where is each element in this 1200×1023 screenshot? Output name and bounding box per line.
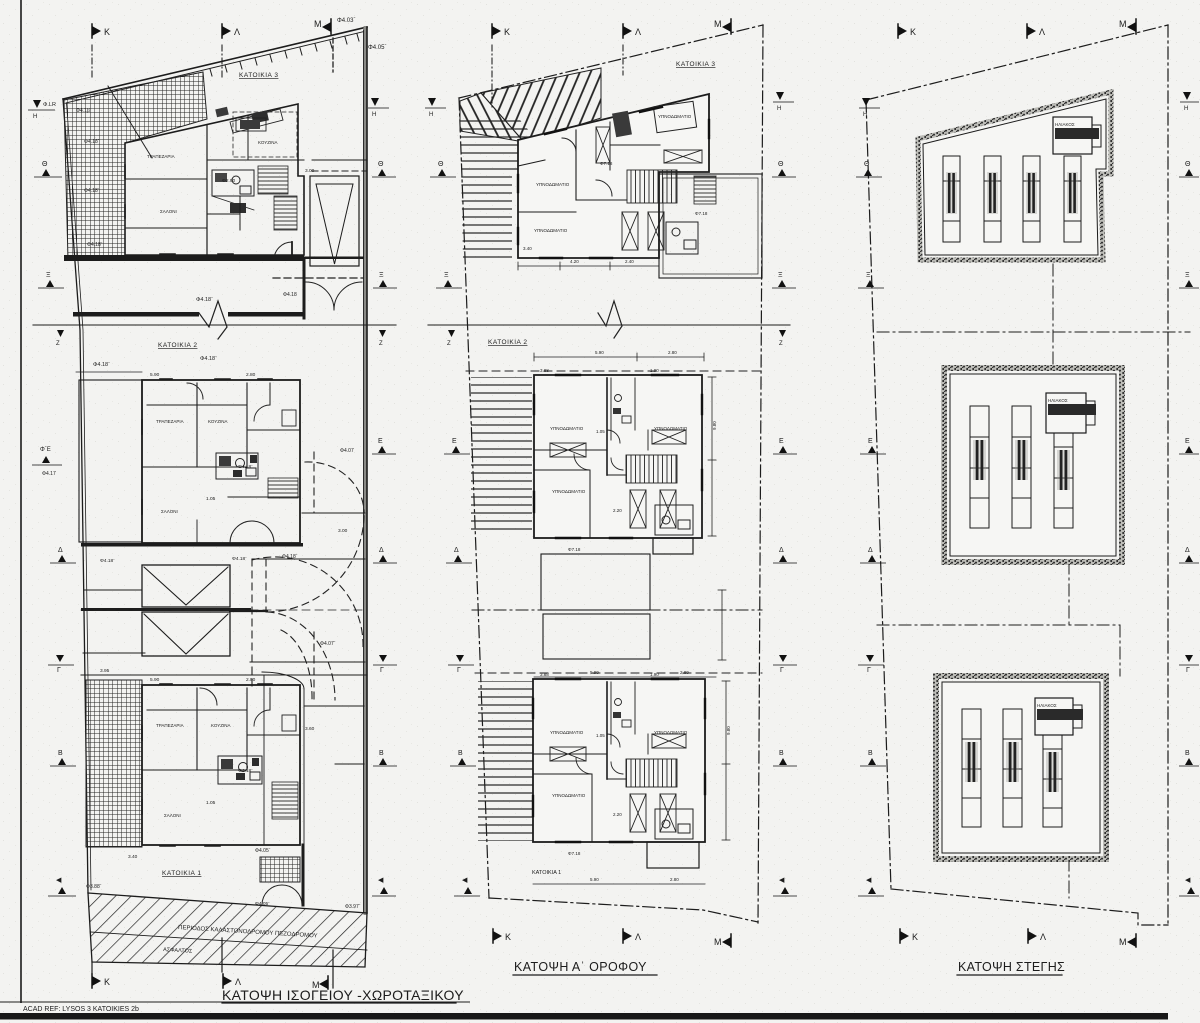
svg-text:Θ: Θ bbox=[438, 161, 444, 168]
window tick marks on left-panel houses bbox=[125, 165, 272, 846]
bottom black bar bbox=[0, 1013, 1168, 1020]
site boundary left edge bbox=[63, 99, 88, 893]
svg-text:Ξ: Ξ bbox=[778, 272, 783, 279]
svg-text:Φ3.97ˉ: Φ3.97ˉ bbox=[345, 904, 361, 910]
svg-text:ΚΑΤΟΨΗ ΣΤΕΓΗΣ: ΚΑΤΟΨΗ ΣΤΕΓΗΣ bbox=[958, 960, 1065, 974]
svg-text:ΚΑΤΟΨΗ ΙΣΟΓΕΙΟΥ -ΧΩΡΟΤΑΞΙΚΟΥ: ΚΑΤΟΨΗ ΙΣΟΓΕΙΟΥ -ΧΩΡΟΤΑΞΙΚΟΥ bbox=[222, 987, 464, 1003]
svg-text:Φ7.18: Φ7.18 bbox=[600, 161, 613, 166]
svg-text:Θ: Θ bbox=[378, 161, 384, 168]
svg-text:Λ: Λ bbox=[635, 27, 641, 37]
pergola hstripe band left house3 bbox=[460, 120, 545, 258]
svg-text:B: B bbox=[379, 750, 384, 757]
svg-text:3.40: 3.40 bbox=[523, 246, 532, 251]
svg-text:5.90: 5.90 bbox=[150, 677, 160, 683]
stairs house2 mid bbox=[626, 455, 677, 483]
svg-text:ΗΛΙΑΚΟΣ: ΗΛΙΑΚΟΣ bbox=[1037, 703, 1057, 708]
house2 stairs bbox=[268, 478, 298, 498]
scattered dims mid panel bbox=[540, 368, 659, 856]
svg-text:M: M bbox=[1119, 937, 1127, 947]
road strip hatched bbox=[88, 893, 367, 967]
svg-text:E: E bbox=[1185, 438, 1190, 445]
house2 terrace rect bbox=[79, 380, 142, 542]
svg-text:E: E bbox=[378, 438, 383, 445]
entry court hatch square bbox=[260, 857, 300, 882]
roof 3 (bottom) bbox=[936, 676, 1106, 859]
svg-text:K: K bbox=[912, 932, 918, 942]
solar panels roof1 bbox=[943, 156, 1081, 242]
pergola hstripe house2 mid bbox=[471, 377, 532, 533]
svg-text:ΥΠΝΟΔΩΜΑΤΙΟ: ΥΠΝΟΔΩΜΑΤΙΟ bbox=[552, 489, 586, 494]
house1 top entry arc bbox=[200, 688, 217, 705]
svg-text:ΤΡΑΠΕΖΑΡΙΑ: ΤΡΑΠΕΖΑΡΙΑ bbox=[156, 419, 184, 424]
svg-text:H: H bbox=[1184, 106, 1188, 112]
property boundary dash-dot right panel bbox=[866, 25, 1168, 925]
section flag L top bbox=[222, 24, 240, 38]
svg-text:ΤΡΑΠΕΖΑΡΙΑ: ΤΡΑΠΕΖΑΡΙΑ bbox=[156, 723, 184, 728]
dimension below house1 mid bbox=[533, 883, 705, 885]
svg-text:Φ4.18ˉ: Φ4.18ˉ bbox=[84, 188, 100, 194]
svg-text:ΚΑΤΟΙΚΙΑ 3: ΚΑΤΟΙΚΙΑ 3 bbox=[239, 72, 278, 79]
svg-text:Δ: Δ bbox=[379, 547, 384, 554]
svg-text:3.40: 3.40 bbox=[128, 854, 138, 860]
svg-text:Φ4.07ˉ: Φ4.07ˉ bbox=[320, 641, 336, 647]
svg-text:M: M bbox=[1119, 19, 1127, 29]
bath house3 mid bbox=[666, 222, 698, 254]
grid dash-dot horizontal between houses bbox=[472, 609, 762, 611]
svg-text:H: H bbox=[372, 112, 376, 118]
svg-text:M: M bbox=[714, 937, 722, 947]
X window boxes house3 mid bbox=[596, 127, 702, 250]
veranda cross-hatch house3 bbox=[64, 72, 207, 260]
svg-text:Ξ: Ξ bbox=[444, 272, 449, 279]
svg-text:Φ4.05ˉ: Φ4.05ˉ bbox=[255, 848, 271, 854]
svg-text:ΥΠΝΟΔΩΜΑΤΙΟ: ΥΠΝΟΔΩΜΑΤΙΟ bbox=[534, 228, 568, 233]
terraces between house2 and house1 mid bbox=[541, 554, 650, 610]
courtyard ticks row between house3 and wall band bbox=[273, 277, 363, 279]
A marks bbox=[48, 877, 76, 896]
svg-text:5.90: 5.90 bbox=[150, 372, 160, 378]
svg-text:2.20: 2.20 bbox=[613, 508, 622, 513]
svg-text:3.88: 3.88 bbox=[540, 672, 549, 677]
window dark ticks house2 mid bbox=[534, 375, 702, 538]
Delta marks bbox=[50, 547, 76, 563]
interior house2 mid bbox=[534, 449, 607, 451]
svg-text:1.90: 1.90 bbox=[650, 672, 659, 677]
svg-text:Φ4.18ˉ: Φ4.18ˉ bbox=[100, 558, 115, 564]
svg-text:Θ: Θ bbox=[864, 161, 870, 168]
svg-text:Φ4.05ˉ: Φ4.05ˉ bbox=[368, 45, 386, 51]
house1 mid outline bbox=[533, 679, 705, 842]
svg-text:B: B bbox=[58, 750, 63, 757]
section flag K top bbox=[492, 24, 510, 38]
house2 entry door arcs bottom bbox=[230, 521, 252, 543]
svg-text:Θ: Θ bbox=[42, 161, 48, 168]
svg-text:4.20: 4.20 bbox=[570, 259, 579, 264]
svg-text:Λ: Λ bbox=[1039, 27, 1045, 37]
svg-text:H: H bbox=[33, 114, 37, 120]
site boundary right edge (double) bbox=[364, 28, 368, 913]
svg-text:ΥΠΝΟΔΩΜΑΤΙΟ: ΥΠΝΟΔΩΜΑΤΙΟ bbox=[658, 114, 692, 119]
svg-text:◀: ◀ bbox=[779, 877, 785, 884]
house1 outline bbox=[142, 685, 300, 845]
garage house1: two stalls with V bbox=[142, 565, 230, 607]
long section line Z-Z bbox=[33, 324, 396, 326]
svg-text:ΣΑΛΟΝΙ: ΣΑΛΟΝΙ bbox=[161, 509, 178, 514]
svg-text:2.80: 2.80 bbox=[670, 877, 679, 882]
section flag M top bbox=[714, 19, 731, 34]
svg-text:H: H bbox=[777, 106, 781, 112]
svg-text:ΗΛΙΑΚΟΣ: ΗΛΙΑΚΟΣ bbox=[1055, 122, 1075, 127]
svg-text:◀: ◀ bbox=[462, 877, 468, 884]
garage door swing arcs court bbox=[306, 282, 334, 310]
svg-text:2.80: 2.80 bbox=[680, 670, 689, 675]
svg-text:Γ: Γ bbox=[780, 667, 784, 674]
garage house3 right rectangle with ramp triangle bbox=[310, 176, 359, 266]
svg-text:◀: ◀ bbox=[56, 877, 62, 884]
svg-text:3.95: 3.95 bbox=[100, 668, 110, 674]
house1 stairs bbox=[272, 782, 298, 819]
svg-text:5.90: 5.90 bbox=[590, 670, 599, 675]
svg-text:Φ2.90: Φ2.90 bbox=[222, 178, 235, 184]
house3 stairs bbox=[258, 166, 288, 194]
window dark ticks house1 mid bbox=[533, 679, 705, 842]
svg-text:Φ4.07: Φ4.07 bbox=[340, 448, 354, 454]
Theta marks bbox=[34, 161, 62, 177]
svg-text:ΚΟΥΖΙΝΑ: ΚΟΥΖΙΝΑ bbox=[211, 723, 230, 728]
interior house1 mid bbox=[533, 753, 607, 755]
svg-text:B: B bbox=[868, 750, 873, 757]
svg-text:ΚΑΤΟΙΚΙΑ 3: ΚΑΤΟΙΚΙΑ 3 bbox=[676, 61, 715, 68]
title block top line bbox=[0, 1001, 470, 1003]
svg-text:M: M bbox=[314, 19, 322, 29]
internal dash-dot connectors bbox=[877, 264, 1190, 898]
svg-text:Γ: Γ bbox=[867, 667, 871, 674]
house2 top door arc bbox=[187, 383, 203, 399]
svg-text:2.80: 2.80 bbox=[246, 677, 256, 683]
svg-text:Φ4.18: Φ4.18 bbox=[283, 292, 297, 298]
driveway dashed arcs right of house2 bbox=[252, 452, 364, 700]
svg-text:1.05: 1.05 bbox=[206, 496, 216, 502]
section flag M top bbox=[314, 19, 331, 34]
roof stripe band house3 bbox=[481, 68, 601, 142]
Gamma marks bbox=[48, 655, 74, 674]
house2 interior walls bbox=[147, 404, 247, 406]
bath house2 mid bbox=[655, 505, 693, 535]
svg-text:Γ: Γ bbox=[380, 667, 384, 674]
svg-text:Δ: Δ bbox=[868, 547, 873, 554]
bed house3 mid bbox=[653, 101, 696, 132]
svg-text:◀: ◀ bbox=[1185, 877, 1191, 884]
roof 2 (middle) bbox=[944, 368, 1122, 562]
svg-text:ΥΠΝΟΔΩΜΑΤΙΟ: ΥΠΝΟΔΩΜΑΤΙΟ bbox=[550, 426, 584, 431]
fence ticks along top boundary wall bbox=[210, 34, 359, 76]
svg-text:Λ: Λ bbox=[234, 27, 240, 37]
svg-text:3.60: 3.60 bbox=[305, 726, 315, 732]
svg-text:Δ: Δ bbox=[1185, 547, 1190, 554]
svg-text:Ξ: Ξ bbox=[1185, 272, 1190, 279]
dash lines under flags bbox=[91, 45, 93, 80]
grid marks middle panel bbox=[425, 92, 797, 896]
svg-text:Θ: Θ bbox=[778, 161, 784, 168]
svg-text:E: E bbox=[452, 438, 457, 445]
svg-text:Λ: Λ bbox=[635, 932, 641, 942]
svg-text:ΚΑΤΟΙΚΙΑ 2: ΚΑΤΟΙΚΙΑ 2 bbox=[488, 339, 527, 346]
house3 interior walls bbox=[206, 125, 208, 255]
svg-text:Φ4.18ˉ: Φ4.18ˉ bbox=[200, 356, 217, 362]
roof 1 (top) bbox=[918, 92, 1111, 260]
svg-text:K: K bbox=[104, 977, 110, 987]
grid marks right panel bbox=[856, 92, 1199, 896]
svg-text:Φ.LR: Φ.LR bbox=[43, 102, 56, 108]
svg-text:Φ4.18ˉ: Φ4.18ˉ bbox=[238, 464, 253, 470]
house2 mid outline bbox=[534, 375, 702, 538]
svg-text:H: H bbox=[429, 112, 433, 118]
svg-text:3.00: 3.00 bbox=[305, 168, 315, 174]
svg-text:1.90: 1.90 bbox=[650, 368, 659, 373]
house 3 outline bbox=[125, 104, 304, 255]
line between garage court and house1 bbox=[81, 674, 367, 676]
house1 bath cluster bbox=[218, 756, 262, 784]
section flag K top bbox=[92, 24, 110, 38]
svg-text:Θ: Θ bbox=[1185, 161, 1191, 168]
svg-text:ΗΛΙΑΚΟΣ: ΗΛΙΑΚΟΣ bbox=[1048, 398, 1068, 403]
pergola hstripe house1 mid bbox=[478, 681, 539, 841]
svg-text:ΥΠΝΟΔΩΜΑΤΙΟ: ΥΠΝΟΔΩΜΑΤΙΟ bbox=[536, 182, 570, 187]
svg-text:K: K bbox=[910, 27, 916, 37]
dimension lines above house2 mid bbox=[534, 356, 704, 358]
WC fixtures top-center house1 mid bbox=[615, 699, 622, 706]
entry court door arcs bbox=[262, 885, 282, 905]
house3 mid outline bbox=[518, 94, 709, 258]
svg-text:H: H bbox=[863, 112, 867, 118]
house3 mid garage/terrace rect bbox=[659, 174, 762, 278]
house2 right side partitions bbox=[269, 383, 271, 405]
svg-text:9.80: 9.80 bbox=[712, 421, 717, 430]
section flag K top bbox=[898, 24, 916, 38]
svg-text:Γ: Γ bbox=[1186, 667, 1190, 674]
bottom flags bbox=[92, 974, 110, 988]
bottom flags right bbox=[900, 929, 918, 943]
svg-text:Ξ: Ξ bbox=[46, 272, 51, 279]
svg-text:Φ4.1βˉ: Φ4.1βˉ bbox=[76, 108, 92, 114]
svg-text:ΥΠΝΟΔΩΜΑΤΙΟ: ΥΠΝΟΔΩΜΑΤΙΟ bbox=[550, 730, 584, 735]
svg-text:5.90: 5.90 bbox=[595, 350, 604, 355]
dimension line right of house2 mid bbox=[708, 377, 726, 660]
svg-text:Φ7.18: Φ7.18 bbox=[695, 211, 708, 216]
house2 mid lower block bbox=[653, 538, 693, 554]
house2 corridor lines bbox=[228, 496, 300, 498]
svg-text:Γ: Γ bbox=[457, 667, 461, 674]
svg-text:Φ4.18ˉ: Φ4.18ˉ bbox=[93, 362, 110, 368]
house3 top right small rooms detail bbox=[236, 118, 266, 131]
Xi marks bbox=[38, 272, 64, 288]
svg-text:5.90: 5.90 bbox=[590, 877, 599, 882]
svg-text:ΚΟΥΖΙΝΑ: ΚΟΥΖΙΝΑ bbox=[258, 140, 277, 145]
svg-text:K: K bbox=[104, 27, 110, 37]
svg-text:E: E bbox=[868, 438, 873, 445]
svg-text:ΦˉE: ΦˉE bbox=[40, 447, 51, 453]
svg-text:2.20: 2.20 bbox=[613, 812, 622, 817]
svg-text:Δ: Δ bbox=[454, 547, 459, 554]
svg-text:Z: Z bbox=[447, 341, 451, 347]
house3 mid interior bbox=[575, 130, 577, 200]
svg-text:Φ4.18ˉ: Φ4.18ˉ bbox=[238, 768, 253, 774]
bottom flags mid bbox=[493, 929, 511, 943]
svg-text:Φ3.88ˉ: Φ3.88ˉ bbox=[86, 884, 102, 890]
svg-text:1.05: 1.05 bbox=[596, 733, 605, 738]
svg-text:Λ: Λ bbox=[1040, 932, 1046, 942]
stairs house1 mid bbox=[626, 759, 677, 787]
house1 right side partitions bbox=[269, 688, 271, 710]
house1 interior walls bbox=[147, 709, 247, 711]
dimension line right of house1 mid bbox=[722, 681, 730, 840]
dashed line above house2 mid bbox=[466, 370, 762, 372]
svg-text:Z: Z bbox=[56, 341, 60, 347]
vertical panel labels roof1 bbox=[946, 172, 957, 214]
retaining wall thick band with break bbox=[73, 312, 199, 317]
svg-text:Φ4.18ˉ: Φ4.18ˉ bbox=[232, 556, 247, 562]
svg-text:3.00: 3.00 bbox=[338, 528, 348, 534]
thick wall below house2 bbox=[81, 543, 303, 547]
H marks bbox=[28, 100, 56, 120]
solar heater block roof1 bbox=[1053, 117, 1092, 154]
svg-text:Φ4.18ˉ: Φ4.18ˉ bbox=[196, 297, 213, 303]
svg-text:1.05: 1.05 bbox=[206, 800, 216, 806]
svg-text:K: K bbox=[504, 27, 510, 37]
svg-text:B: B bbox=[779, 750, 784, 757]
B marks bbox=[50, 750, 76, 766]
left frame border line bbox=[20, 0, 22, 1003]
svg-text:Φ4.18ˉ: Φ4.18ˉ bbox=[87, 242, 103, 248]
house3 bath fixtures bbox=[212, 170, 254, 196]
entry court path bbox=[262, 672, 304, 689]
svg-text:ΚΑΤΟΙΚΙΑ 2: ΚΑΤΟΙΚΙΑ 2 bbox=[158, 342, 197, 349]
svg-text:Φ7.18: Φ7.18 bbox=[568, 851, 581, 856]
svg-text:ΥΠΝΟΔΩΜΑΤΙΟ: ΥΠΝΟΔΩΜΑΤΙΟ bbox=[654, 730, 688, 735]
house3 bottom thick wall band bbox=[64, 255, 304, 261]
svg-text:ΣΑΛΟΝΙ: ΣΑΛΟΝΙ bbox=[164, 813, 181, 818]
door arcs house3 mid bbox=[562, 138, 576, 152]
svg-text:ΥΠΝΟΔΩΜΑΤΙΟ: ΥΠΝΟΔΩΜΑΤΙΟ bbox=[552, 793, 586, 798]
svg-text:ΚΑΤΟΙΚΙΑ 1: ΚΑΤΟΙΚΙΑ 1 bbox=[162, 870, 201, 877]
svg-text:2.80: 2.80 bbox=[668, 350, 677, 355]
svg-text:Γ: Γ bbox=[57, 667, 61, 674]
stairs house3 mid bbox=[627, 170, 677, 203]
svg-text:2.40: 2.40 bbox=[625, 259, 634, 264]
svg-text:◀: ◀ bbox=[866, 877, 872, 884]
bath house1 mid bbox=[655, 809, 693, 839]
house3 kitchen counter bbox=[233, 112, 297, 157]
section flag L top bbox=[623, 24, 641, 38]
svg-text:3.88: 3.88 bbox=[540, 368, 549, 373]
svg-text:ΚΑΤΟΨΗ Αˈ ΟΡΟΦΟΥ: ΚΑΤΟΨΗ Αˈ ΟΡΟΦΟΥ bbox=[514, 960, 647, 974]
svg-text:9.80: 9.80 bbox=[726, 726, 731, 735]
WC fixtures top-center house2 mid bbox=[615, 395, 622, 402]
svg-text:ACAD REF: LYSOS 3 KATOIKIES 2b: ACAD REF: LYSOS 3 KATOIKIES 2b bbox=[23, 1006, 139, 1013]
svg-text:Δ: Δ bbox=[58, 547, 63, 554]
svg-text:M: M bbox=[714, 19, 722, 29]
court horizontal lines right of house2 bbox=[302, 512, 365, 514]
svg-text:ΥΠΝΟΔΩΜΑΤΙΟ: ΥΠΝΟΔΩΜΑΤΙΟ bbox=[654, 426, 688, 431]
X boxes house1 mid bbox=[550, 734, 686, 832]
svg-text:Δ: Δ bbox=[779, 547, 784, 554]
svg-text:ΣΑΛΟΝΙ: ΣΑΛΟΝΙ bbox=[160, 209, 177, 214]
svg-text:ΚΟΥΖΙΝΑ: ΚΟΥΖΙΝΑ bbox=[208, 419, 227, 424]
section line mid panel bbox=[428, 324, 790, 326]
window dark ticks house3 mid bbox=[518, 107, 709, 258]
svg-text:Ξ: Ξ bbox=[866, 272, 871, 279]
svg-text:Φ7.18: Φ7.18 bbox=[568, 547, 581, 552]
section trace ticks across road bbox=[221, 938, 223, 972]
svg-text:B: B bbox=[458, 750, 463, 757]
svg-text:◀: ◀ bbox=[378, 877, 384, 884]
svg-text:Z: Z bbox=[379, 341, 383, 347]
svg-text:Z: Z bbox=[779, 341, 783, 347]
site boundary top edge (double) bbox=[63, 27, 367, 99]
ticks below house3 mid bbox=[518, 262, 659, 270]
svg-text:B: B bbox=[1185, 750, 1190, 757]
svg-text:ΤΡΑΠΕΖΑΡΙΑ: ΤΡΑΠΕΖΑΡΙΑ bbox=[147, 154, 175, 159]
svg-text:Φ4.03ˉ: Φ4.03ˉ bbox=[337, 18, 355, 24]
house2 bath cluster bbox=[216, 453, 258, 479]
svg-text:Φ4.18ˉ: Φ4.18ˉ bbox=[84, 139, 100, 145]
property boundary dash-dot bbox=[459, 25, 763, 925]
dimension under terraces bbox=[534, 676, 716, 678]
svg-text:Φ4.17: Φ4.17 bbox=[42, 471, 56, 477]
svg-text:Λ: Λ bbox=[235, 977, 241, 987]
house2 outline bbox=[142, 380, 300, 543]
svg-text:Φ4.18ˉ: Φ4.18ˉ bbox=[282, 554, 298, 560]
svg-text:ΚΑΤΟΙΚΙΑ 1: ΚΑΤΟΙΚΙΑ 1 bbox=[532, 870, 561, 876]
svg-text:K: K bbox=[505, 932, 511, 942]
scattered level marks left panel bbox=[100, 168, 348, 907]
E marks bbox=[32, 447, 62, 477]
X boxes house2 mid bbox=[550, 430, 686, 528]
svg-text:2.80: 2.80 bbox=[246, 372, 256, 378]
svg-text:E: E bbox=[779, 438, 784, 445]
svg-text:Ξ: Ξ bbox=[379, 272, 384, 279]
svg-text:1.05: 1.05 bbox=[596, 429, 605, 434]
veranda cross-hatch house1 bbox=[86, 680, 142, 847]
